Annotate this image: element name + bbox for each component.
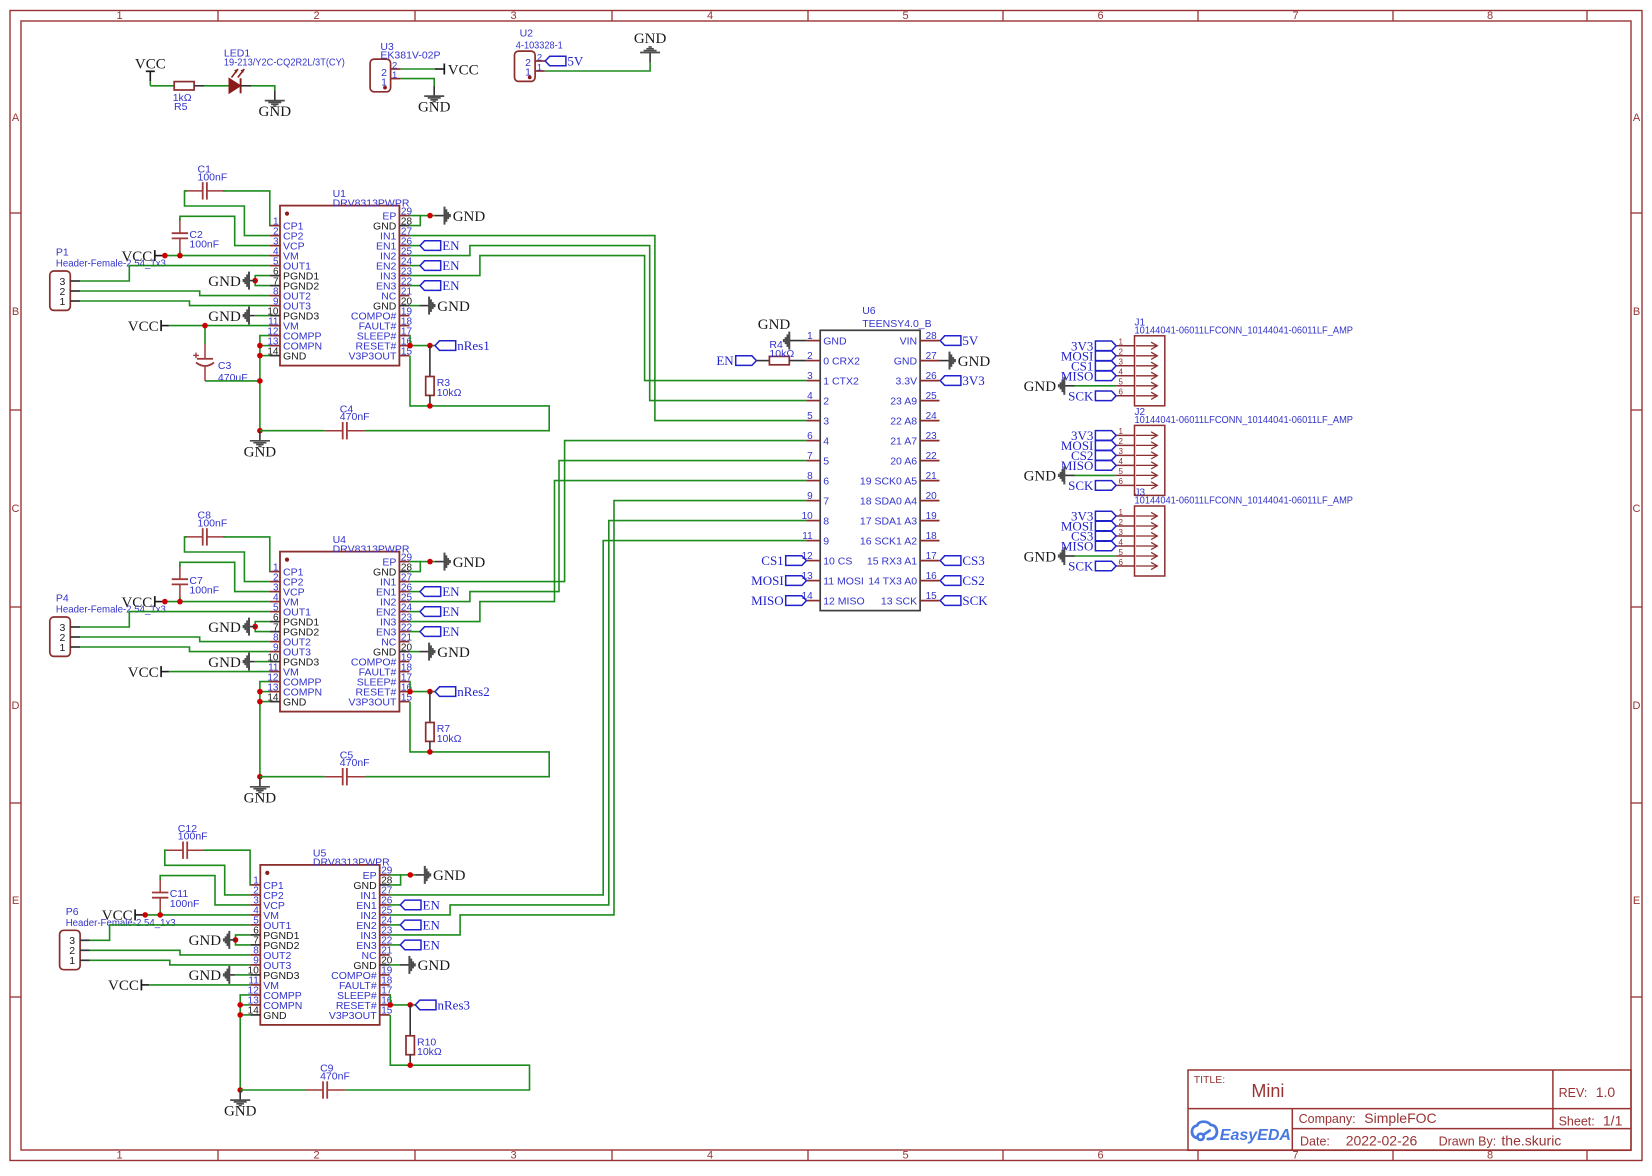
wire SLEEP# to RESET# bbox=[408, 336, 411, 346]
svg-text:25: 25 bbox=[926, 391, 938, 402]
pin 17 of U6 bbox=[920, 560, 939, 562]
net flag EN bbox=[420, 607, 441, 617]
svg-text:U2: U2 bbox=[520, 27, 534, 39]
pin 12 of U6 bbox=[806, 560, 820, 562]
pin 3 of J1 bbox=[1116, 365, 1134, 367]
svg-text:2: 2 bbox=[1119, 518, 1124, 527]
ground GND (LED) bbox=[274, 91, 276, 101]
svg-text:4: 4 bbox=[707, 1150, 713, 1162]
wire bbox=[260, 355, 270, 357]
pin 6 of J2 bbox=[1116, 484, 1134, 486]
wire C3 to rail bbox=[205, 380, 260, 382]
wire P pin3 to OUT1 bbox=[80, 266, 270, 281]
svg-text:12 MISO: 12 MISO bbox=[823, 596, 864, 608]
svg-text:8: 8 bbox=[1487, 10, 1493, 22]
connector U2 4-103328-1 bbox=[515, 51, 536, 81]
net flag MOSI bbox=[786, 576, 807, 586]
ground GND (EP) bbox=[435, 215, 445, 217]
ground GND (PGND3) bbox=[255, 661, 270, 663]
power flag VCC (VM) bbox=[154, 250, 156, 261]
pin 4 of J2 bbox=[1116, 464, 1134, 466]
svg-text:1: 1 bbox=[116, 1150, 122, 1162]
net flag MOSI bbox=[1095, 351, 1116, 361]
svg-text:GND: GND bbox=[453, 555, 486, 571]
net flag CS2 bbox=[940, 576, 961, 586]
net flag CS1 bbox=[786, 556, 807, 566]
svg-text:470nF: 470nF bbox=[320, 1070, 350, 1082]
svg-text:EN: EN bbox=[442, 278, 460, 293]
net flag MISO bbox=[1095, 461, 1116, 471]
wire P pin2 to OUT2 bbox=[80, 637, 270, 642]
pin 4 of J3 bbox=[1116, 545, 1134, 547]
svg-text:A: A bbox=[12, 112, 20, 124]
svg-text:GND: GND bbox=[259, 104, 292, 120]
pin 20 of U6 bbox=[920, 500, 939, 502]
svg-text:VCC: VCC bbox=[448, 62, 479, 78]
svg-text:GND: GND bbox=[1024, 469, 1057, 485]
svg-text:CS1: CS1 bbox=[761, 553, 783, 568]
svg-text:GND: GND bbox=[894, 356, 918, 368]
svg-text:EN: EN bbox=[423, 938, 441, 953]
svg-text:10144041-06011LFCONN_10144041-: 10144041-06011LFCONN_10144041-06011LF_AM… bbox=[1135, 415, 1354, 426]
capacitor C9 470nF bbox=[322, 1081, 324, 1098]
pin 3 of U6 bbox=[806, 380, 820, 382]
wire COMP/GND rail bbox=[260, 682, 270, 777]
svg-text:24: 24 bbox=[926, 411, 938, 422]
svg-text:4: 4 bbox=[823, 436, 829, 448]
svg-text:A: A bbox=[1633, 112, 1641, 124]
pin 5 of J2 bbox=[1116, 474, 1134, 476]
wire U5 IN3 to Teensy pin9 bbox=[390, 501, 807, 935]
svg-text:MISO: MISO bbox=[751, 593, 784, 608]
LED LED1 19-213/Y2C-CQ2R2L/3T(CY) bbox=[229, 78, 241, 93]
svg-text:V3P3OUT: V3P3OUT bbox=[349, 351, 397, 363]
svg-text:3: 3 bbox=[823, 416, 829, 428]
svg-text:3: 3 bbox=[1119, 358, 1124, 367]
ground GND (PGND1/PGND2) bbox=[255, 276, 270, 286]
svg-text:GND: GND bbox=[189, 933, 222, 949]
svg-text:GND: GND bbox=[958, 354, 991, 370]
net flag 5V bbox=[545, 56, 566, 66]
svg-text:EN: EN bbox=[442, 624, 460, 639]
svg-text:3: 3 bbox=[510, 10, 516, 22]
svg-text:nRes3: nRes3 bbox=[438, 998, 471, 1013]
svg-text:17: 17 bbox=[926, 551, 938, 562]
wire bbox=[240, 1004, 250, 1006]
power flag VCC (VM2) bbox=[140, 979, 142, 990]
svg-text:0 CRX2: 0 CRX2 bbox=[823, 356, 860, 368]
svg-text:5V: 5V bbox=[567, 54, 584, 69]
wire bbox=[260, 345, 270, 347]
wire SLEEP# to RESET# bbox=[389, 995, 392, 1005]
svg-text:MISO: MISO bbox=[1061, 458, 1094, 473]
svg-text:6: 6 bbox=[1119, 477, 1124, 486]
wire bbox=[169, 325, 270, 327]
ground GND (PGND1/PGND2) bbox=[255, 622, 270, 632]
wire bbox=[150, 85, 174, 87]
svg-text:V3P3OUT: V3P3OUT bbox=[349, 697, 397, 709]
svg-text:6: 6 bbox=[1119, 558, 1124, 567]
pin 23 of U6 bbox=[920, 440, 939, 442]
svg-text:17 SDA1 A3: 17 SDA1 A3 bbox=[860, 516, 917, 528]
IC U4 DRV8313PWPR bbox=[280, 552, 399, 712]
junction bbox=[257, 689, 263, 695]
resistor R7 10kOhm bbox=[429, 692, 431, 723]
wire P pin2 to OUT2 bbox=[90, 950, 250, 955]
wire bbox=[194, 85, 204, 87]
connector J1 10144041-06011LF bbox=[1135, 336, 1165, 406]
svg-text:B: B bbox=[12, 306, 19, 318]
svg-text:10144041-06011LFCONN_10144041-: 10144041-06011LFCONN_10144041-06011LF_AM… bbox=[1135, 496, 1354, 507]
junction bbox=[407, 1062, 413, 1068]
wire P pin3 to OUT1 bbox=[80, 612, 270, 627]
net flag EN bbox=[400, 900, 421, 910]
junction bbox=[162, 253, 168, 259]
junction bbox=[388, 1002, 394, 1008]
wire VCP net bbox=[180, 216, 270, 245]
ground GND (J1 pin5) bbox=[1075, 385, 1117, 387]
svg-text:15 RX3 A1: 15 RX3 A1 bbox=[867, 556, 917, 568]
svg-text:28: 28 bbox=[926, 331, 938, 342]
svg-text:5V: 5V bbox=[962, 333, 979, 348]
svg-text:1.0: 1.0 bbox=[1596, 1084, 1616, 1100]
svg-text:2022-02-26: 2022-02-26 bbox=[1346, 1133, 1418, 1149]
svg-text:7: 7 bbox=[807, 451, 813, 462]
svg-text:GND: GND bbox=[453, 209, 486, 225]
svg-text:GND: GND bbox=[433, 868, 466, 884]
svg-text:1: 1 bbox=[807, 331, 813, 342]
svg-text:19: 19 bbox=[926, 511, 938, 522]
IC U1 DRV8313PWPR bbox=[280, 206, 399, 366]
wire rail to C4 bbox=[240, 1089, 305, 1091]
svg-text:VCC: VCC bbox=[128, 319, 159, 335]
svg-text:C: C bbox=[12, 503, 20, 515]
pin 1 of J1 bbox=[1116, 345, 1134, 347]
wire bbox=[409, 631, 420, 633]
power flag VCC (VM) bbox=[134, 909, 136, 920]
svg-text:GND: GND bbox=[208, 309, 241, 325]
svg-text:1: 1 bbox=[392, 70, 397, 81]
wire bbox=[240, 1014, 250, 1016]
svg-text:1: 1 bbox=[59, 296, 65, 308]
svg-text:R5: R5 bbox=[174, 101, 188, 113]
svg-text:11 MOSI: 11 MOSI bbox=[823, 576, 864, 588]
pin 3 of J2 bbox=[1116, 454, 1134, 456]
junction bbox=[202, 323, 208, 329]
net flag 5V bbox=[940, 336, 961, 346]
wire bbox=[390, 924, 401, 926]
capacitor C2 100nF bbox=[172, 232, 188, 234]
wire U5 IN2 to Teensy pin10 bbox=[390, 521, 807, 915]
wire U4 IN3 to Teensy pin8 bbox=[409, 481, 806, 622]
wire bbox=[390, 944, 401, 946]
junction bbox=[142, 912, 148, 918]
wire VCP net bbox=[180, 562, 270, 591]
wire bbox=[390, 904, 401, 906]
svg-text:EN: EN bbox=[423, 918, 441, 933]
EasyEDA logo bbox=[1192, 1122, 1217, 1140]
svg-text:Header-Female-2.54_1x3: Header-Female-2.54_1x3 bbox=[66, 917, 176, 929]
pin 1 of J3 bbox=[1116, 515, 1134, 517]
connector P4 Header-Female-2.54_1x3 bbox=[50, 617, 71, 656]
pin 18 of U6 bbox=[920, 540, 939, 542]
svg-text:Header-Female-2.54_1x3: Header-Female-2.54_1x3 bbox=[56, 604, 166, 616]
ground GND (PGND3) bbox=[235, 974, 250, 976]
pin 24 of U6 bbox=[920, 420, 939, 422]
pin 2 of U2 bbox=[535, 60, 545, 62]
svg-text:nRes2: nRes2 bbox=[457, 684, 490, 699]
wire CP1-CP2 cap net bbox=[185, 191, 271, 236]
svg-text:Sheet:: Sheet: bbox=[1559, 1115, 1595, 1129]
wire VM net bbox=[179, 251, 181, 255]
wire bbox=[169, 671, 270, 673]
wire VM net bbox=[179, 597, 181, 601]
svg-text:GND: GND bbox=[758, 317, 791, 333]
wire C4 to V3P3OUT loop bbox=[365, 702, 549, 777]
wire P pin3 to OUT1 bbox=[90, 925, 250, 940]
svg-text:GND: GND bbox=[244, 444, 277, 460]
net flag EN (U6) bbox=[736, 356, 757, 366]
power flag VCC (VM2) bbox=[160, 666, 162, 677]
svg-text:V3P3OUT: V3P3OUT bbox=[329, 1010, 377, 1022]
svg-text:GND: GND bbox=[437, 299, 470, 315]
net flag MISO bbox=[1095, 371, 1116, 381]
svg-text:GND: GND bbox=[1024, 379, 1057, 395]
net flag EN bbox=[420, 281, 441, 291]
net flag 3V3 bbox=[1095, 511, 1116, 521]
net flag CS2 bbox=[1095, 451, 1116, 461]
svg-text:EN: EN bbox=[442, 584, 460, 599]
svg-text:EN: EN bbox=[442, 258, 460, 273]
wire bbox=[241, 85, 252, 87]
svg-text:3: 3 bbox=[1119, 447, 1124, 456]
svg-text:GND: GND bbox=[283, 697, 307, 709]
svg-text:GND: GND bbox=[263, 1010, 287, 1022]
net flag EN bbox=[420, 261, 441, 271]
connector J3 10144041-06011LF bbox=[1135, 506, 1165, 576]
net flag 3V3 bbox=[1095, 431, 1116, 441]
svg-text:VCC: VCC bbox=[128, 665, 159, 681]
svg-text:GND: GND bbox=[1024, 549, 1057, 565]
net flag EN bbox=[420, 587, 441, 597]
svg-text:9: 9 bbox=[807, 491, 813, 502]
svg-text:2: 2 bbox=[823, 396, 829, 408]
ground GND (pin20) bbox=[409, 305, 419, 307]
svg-text:C3: C3 bbox=[218, 360, 232, 372]
pin 1 of U6 bbox=[806, 340, 820, 342]
svg-text:E: E bbox=[12, 895, 19, 907]
power flag VCC (VM) bbox=[154, 596, 156, 607]
net flag SCK bbox=[1095, 561, 1116, 571]
svg-text:10kΩ: 10kΩ bbox=[417, 1046, 442, 1058]
resistor R5 1kOhm bbox=[174, 82, 194, 90]
svg-text:18: 18 bbox=[926, 531, 938, 542]
capacitor C1 100nF bbox=[202, 182, 204, 199]
svg-text:SCK: SCK bbox=[1068, 478, 1094, 493]
pin 1 of U3 bbox=[391, 78, 401, 80]
svg-text:2: 2 bbox=[1119, 348, 1124, 357]
svg-text:SimpleFOC: SimpleFOC bbox=[1364, 1110, 1436, 1126]
svg-text:10 CS: 10 CS bbox=[823, 556, 852, 568]
pin 1 of U2 bbox=[535, 70, 545, 72]
pin 1 of J2 bbox=[1116, 434, 1134, 436]
capacitor C7 100nF bbox=[172, 578, 188, 580]
net flag 3V3 bbox=[940, 376, 961, 386]
wire bbox=[260, 691, 270, 693]
svg-text:19 SCK0 A5: 19 SCK0 A5 bbox=[860, 476, 917, 488]
svg-text:10144041-06011LFCONN_10144041-: 10144041-06011LFCONN_10144041-06011LF_AM… bbox=[1135, 325, 1354, 336]
wire bbox=[409, 591, 420, 593]
svg-text:3: 3 bbox=[807, 371, 813, 382]
pin 6 of J3 bbox=[1116, 565, 1134, 567]
svg-text:15: 15 bbox=[926, 591, 938, 602]
wire rail to C4 bbox=[260, 776, 325, 778]
svg-text:2: 2 bbox=[807, 351, 813, 362]
wire C4 to V3P3OUT loop bbox=[345, 1015, 529, 1090]
svg-text:19-213/Y2C-CQ2R2L/3T(CY): 19-213/Y2C-CQ2R2L/3T(CY) bbox=[224, 57, 345, 69]
wire bbox=[409, 611, 420, 613]
wire U4 IN1 to Teensy pin6 bbox=[409, 441, 806, 582]
svg-text:D: D bbox=[12, 700, 20, 712]
wire VM net bbox=[159, 911, 161, 915]
ground GND (pin20) bbox=[390, 964, 400, 966]
svg-text:4: 4 bbox=[707, 10, 713, 22]
wire bbox=[260, 701, 270, 703]
pin 27 of U6 bbox=[920, 360, 939, 362]
pin 2 of J3 bbox=[1116, 525, 1134, 527]
svg-text:1: 1 bbox=[1119, 427, 1124, 436]
pin 2 of U6 bbox=[806, 360, 820, 362]
net flag MISO bbox=[1095, 541, 1116, 551]
svg-text:5: 5 bbox=[1119, 467, 1124, 476]
junction bbox=[427, 403, 433, 409]
net flag EN bbox=[400, 940, 421, 950]
pin 3 of J3 bbox=[1116, 535, 1134, 537]
svg-text:20 A6: 20 A6 bbox=[890, 456, 917, 468]
svg-text:8: 8 bbox=[823, 516, 829, 528]
net flag CS1 bbox=[1095, 361, 1116, 371]
svg-text:DRV8313PWPR: DRV8313PWPR bbox=[313, 857, 390, 869]
svg-text:5: 5 bbox=[823, 456, 829, 468]
pin 10 of U6 bbox=[806, 520, 820, 522]
wire U1 IN1 to Teensy pin5 bbox=[409, 236, 806, 421]
wire bbox=[223, 537, 270, 572]
wire bbox=[223, 191, 270, 226]
junction bbox=[408, 872, 414, 878]
junction bbox=[162, 599, 168, 605]
pin 26 of U6 bbox=[920, 380, 939, 382]
svg-text:VCC: VCC bbox=[108, 978, 139, 994]
svg-text:27: 27 bbox=[926, 351, 938, 362]
resistor R4 10kOhm bbox=[756, 360, 769, 362]
svg-text:Drawn By:: Drawn By: bbox=[1439, 1135, 1497, 1149]
wire P pin1 to OUT3 bbox=[90, 960, 250, 965]
svg-text:9: 9 bbox=[823, 536, 829, 548]
net flag EN bbox=[420, 241, 441, 251]
svg-text:20: 20 bbox=[926, 491, 938, 502]
svg-text:6: 6 bbox=[1097, 1150, 1103, 1162]
svg-text:7: 7 bbox=[1292, 1150, 1298, 1162]
svg-text:10: 10 bbox=[802, 511, 814, 522]
svg-text:GND: GND bbox=[418, 958, 451, 974]
svg-text:3: 3 bbox=[510, 1150, 516, 1162]
svg-text:2: 2 bbox=[313, 10, 319, 22]
pin 13 of U6 bbox=[806, 580, 820, 582]
wire bbox=[401, 79, 435, 86]
svg-text:VCC: VCC bbox=[135, 56, 166, 72]
ground GND (U6 pin27) bbox=[940, 360, 950, 362]
IC U6 TEENSY4.0_B bbox=[820, 330, 920, 610]
net flag CS3 bbox=[1095, 531, 1116, 541]
power flag VCC (U3) bbox=[443, 64, 445, 75]
pin 7 of U6 bbox=[806, 460, 820, 462]
net flag nRes1 bbox=[435, 341, 456, 351]
svg-text:5: 5 bbox=[1119, 548, 1124, 557]
svg-text:22 A8: 22 A8 bbox=[890, 416, 917, 428]
pin 14 of U6 bbox=[806, 600, 820, 602]
wire bbox=[401, 68, 435, 70]
pin 4 of U6 bbox=[806, 400, 820, 402]
wire bbox=[409, 245, 420, 247]
svg-text:MISO: MISO bbox=[1061, 368, 1094, 383]
wire P pin2 to OUT2 bbox=[80, 291, 270, 296]
pin 2 of U3 bbox=[391, 68, 401, 70]
svg-text:3: 3 bbox=[1119, 528, 1124, 537]
svg-text:GND: GND bbox=[437, 645, 470, 661]
capacitor C4 470nF bbox=[342, 422, 344, 439]
svg-text:4: 4 bbox=[807, 391, 813, 402]
wire rail to C4 bbox=[260, 430, 325, 432]
svg-text:DRV8313PWPR: DRV8313PWPR bbox=[333, 543, 410, 555]
pin 5 of J1 bbox=[1116, 385, 1134, 387]
pin 6 of U6 bbox=[806, 440, 820, 442]
svg-text:100nF: 100nF bbox=[189, 239, 219, 251]
svg-text:2: 2 bbox=[313, 1150, 319, 1162]
svg-text:22: 22 bbox=[926, 451, 938, 462]
pin 9 of U6 bbox=[806, 500, 820, 502]
svg-text:TITLE:: TITLE: bbox=[1194, 1074, 1226, 1086]
ground GND (main rail) bbox=[259, 431, 261, 441]
pin 5 of J3 bbox=[1116, 555, 1134, 557]
net flag 3V3 bbox=[1095, 341, 1116, 351]
wire P pin1 to OUT3 bbox=[80, 301, 270, 306]
svg-text:SCK: SCK bbox=[962, 593, 988, 608]
wire RESET# to flag bbox=[409, 691, 435, 693]
svg-text:GND: GND bbox=[283, 351, 307, 363]
wire RESET# to flag bbox=[390, 1004, 416, 1006]
svg-text:5: 5 bbox=[1119, 378, 1124, 387]
svg-text:4: 4 bbox=[1119, 368, 1124, 377]
junction bbox=[427, 213, 433, 219]
svg-text:nRes1: nRes1 bbox=[457, 338, 490, 353]
svg-text:5: 5 bbox=[902, 1150, 908, 1162]
svg-text:SCK: SCK bbox=[1068, 388, 1094, 403]
net flag EN bbox=[400, 920, 421, 930]
wire RESET# to flag bbox=[409, 345, 435, 347]
wire U5 IN1 to Teensy pin11 bbox=[390, 541, 807, 895]
svg-text:GND: GND bbox=[823, 336, 847, 348]
svg-text:1/1: 1/1 bbox=[1603, 1113, 1623, 1129]
svg-text:C: C bbox=[1633, 503, 1641, 515]
junction bbox=[257, 343, 263, 349]
pin 2 of J1 bbox=[1116, 355, 1134, 357]
wire bbox=[545, 63, 650, 71]
svg-text:GND: GND bbox=[418, 100, 451, 116]
junction bbox=[407, 343, 413, 349]
svg-text:EN: EN bbox=[442, 604, 460, 619]
svg-text:21 A7: 21 A7 bbox=[890, 436, 917, 448]
svg-text:E: E bbox=[1633, 895, 1640, 907]
